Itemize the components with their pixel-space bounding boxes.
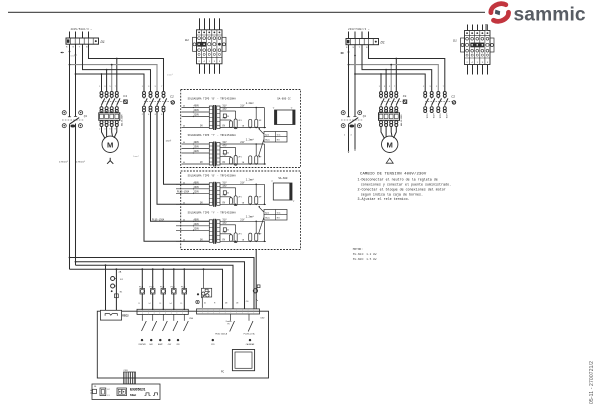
svg-text:CALIBRAR: CALIBRAR [246, 343, 255, 346]
terminal block TB2 mid row circles [465, 43, 468, 46]
svg-text:220V: 220V [194, 150, 200, 153]
svg-text:Blanc: Blanc [265, 218, 270, 220]
svg-text:4: 4 [351, 135, 352, 137]
terminal block TB2 side ears [461, 38, 465, 52]
svg-text:400V/50Hz/3 ~: 400V/50Hz/3 ~ [71, 27, 93, 31]
transformer T4 core [213, 219, 214, 244]
svg-text:AM 49-250S: AM 49-250S [121, 114, 124, 126]
svg-text:sammic: sammic [514, 4, 586, 25]
svg-text:L1: L1 [108, 395, 110, 397]
transformer T2 input 400V [182, 143, 210, 145]
right switch Q blade [349, 118, 359, 125]
junction on r1 [116, 58, 118, 60]
right supply stubs [348, 32, 350, 39]
wire L1 from D1 to switch [69, 44, 71, 117]
svg-text:D1: D1 [381, 41, 385, 45]
right switch aux circle bottom-left [341, 124, 345, 128]
control PCB outline [97, 311, 268, 378]
svg-text:50: 50 [227, 230, 229, 232]
transformer T2 tap 47V [220, 147, 236, 149]
svg-text:Blanc: Blanc [265, 140, 270, 142]
terminal block TB1 side ears [193, 37, 197, 51]
transformer T1 capacitor KF2 [255, 119, 258, 127]
svg-text:40: 40 [183, 126, 185, 128]
svg-text:b1: b1 [204, 303, 206, 305]
svg-text:b/CD1: b/CD1 [445, 114, 447, 119]
terminal block TB1 mid row circles [208, 43, 211, 46]
svg-text:PLUG-150A: PLUG-150A [152, 219, 165, 222]
terminal block TB1 stubs below [199, 64, 201, 74]
welding transformers group box 2 (dashed) [181, 171, 301, 250]
wire C2 col2 to transformer T4 400V [151, 112, 210, 221]
svg-text:8: 8 [115, 128, 116, 130]
contactor C1 coil [124, 100, 127, 103]
right thermal relay [379, 113, 400, 121]
right switch aux circle top-left [341, 111, 345, 115]
svg-text:SA-600 CC: SA-600 CC [277, 97, 291, 100]
branch r2 to contactor C1 [111, 65, 113, 91]
display board left connector [93, 389, 97, 393]
svg-text:11: 11 [138, 303, 140, 305]
svg-text:220V: 220V [194, 191, 200, 194]
svg-text:1: 1 [99, 86, 100, 88]
feeder wire r2 (gray) [70, 65, 158, 91]
wire color legend box 2 [264, 210, 287, 221]
svg-text:3: 3 [148, 86, 149, 88]
terminal block D1 right schematic [346, 39, 379, 45]
terminal block TB2 body [465, 31, 491, 65]
right contactor C2 coil [452, 101, 455, 104]
transformer T4 input 220V [176, 229, 209, 231]
transformer T3 tap 31V [220, 183, 242, 185]
terminal block TB1 jumper bar [197, 42, 206, 47]
svg-text:1-Desconectar el neutro de la: 1-Desconectar el neutro de la regleta de [358, 178, 438, 183]
relay contacts under CN2 [230, 314, 232, 321]
svg-text:400V: 400V [194, 141, 200, 144]
svg-text:1: 1 [379, 86, 380, 88]
contactor C1 lower terminals [100, 107, 103, 110]
transformer T2 capacitor JF1 [234, 156, 237, 166]
svg-text:47V: 47V [222, 108, 227, 111]
svg-text:5: 5 [110, 86, 111, 88]
svg-text:4: 4 [148, 114, 149, 116]
transformer T2 right loop wire [263, 144, 265, 164]
svg-text:40: 40 [183, 183, 185, 185]
main switch Q1 aux circle top-right [79, 111, 83, 115]
svg-text:1: 1 [142, 86, 143, 88]
right switch aux circle top-right [358, 111, 362, 115]
svg-text:3: 3 [430, 86, 431, 88]
transformer T4 fuse CF [229, 235, 232, 242]
svg-text:b/CD1: b/CD1 [439, 114, 441, 119]
svg-text:230/PWR: 230/PWR [138, 344, 146, 346]
svg-text:40: 40 [183, 240, 185, 242]
transformer T1 core [213, 105, 214, 130]
svg-text:Azul: Azul [265, 211, 269, 214]
transformer T2 input 0V [182, 163, 210, 165]
transformer T4 tap 75V [220, 233, 231, 235]
svg-text:SOLDADURA TIPO 'Y' - TRF24520H: SOLDADURA TIPO 'Y' - TRF24520HA [188, 211, 237, 214]
svg-text:47V: 47V [222, 222, 227, 225]
transformer T1 primary winding [209, 106, 212, 129]
fuse wires to connector CN4 [141, 268, 143, 270]
transformer T1 right loop wire [263, 108, 265, 128]
sammic logo mark [489, 2, 510, 23]
transformer T3 capacitor KF2 [255, 196, 258, 204]
relay lower terminals [100, 121, 103, 124]
right branch r4 to C1 [380, 74, 382, 91]
regulator REG2 [100, 310, 121, 320]
transformer T4 wire 21V to caps [242, 220, 265, 222]
transformer T2 fuse CF [229, 157, 232, 164]
transformer T1 input 0V [182, 127, 210, 129]
svg-text:fillet: fillet [130, 393, 136, 397]
svg-text:47V: 47V [222, 185, 227, 188]
PE earth mark [61, 52, 63, 54]
relay sub-box riser wires [203, 269, 205, 288]
svg-text:PLUG-150A: PLUG-150A [177, 191, 190, 194]
LED row [141, 339, 143, 341]
svg-text:C2: C2 [451, 95, 455, 99]
connector strip CN2 [197, 309, 260, 314]
bus wire C [76, 265, 234, 309]
right feeder r3 [362, 45, 432, 91]
transformer T1 input 220V [182, 116, 210, 118]
right contactor C1 contacts [380, 97, 382, 98]
transformer T1 capacitor JF1 [234, 119, 237, 129]
svg-text:E930562/1: E930562/1 [130, 388, 146, 392]
LCD display module 2 [273, 183, 292, 200]
svg-text:b4: b4 [170, 303, 172, 305]
wire color legend box 1 [264, 132, 287, 143]
svg-text:40: 40 [183, 203, 185, 205]
right branch r2 to C1 [390, 65, 392, 91]
svg-text:400V: 400V [194, 105, 200, 108]
svg-text:50: 50 [227, 193, 229, 195]
svg-text:2: 2 [99, 128, 100, 130]
terminal block TB1 screw circles [198, 32, 200, 34]
transformer T2 capacitor KF2 [255, 156, 258, 164]
svg-text:MOTOR:: MOTOR: [353, 248, 363, 251]
svg-text:C1: C1 [123, 94, 127, 98]
transformer T1 tap 31V [220, 107, 242, 109]
svg-text:75V: 75V [222, 117, 227, 120]
right contactor C1 linkage [382, 101, 404, 103]
motor M1 [102, 136, 118, 152]
main switch Q1 blade [70, 118, 80, 125]
right contactor C1 top terminals [380, 92, 383, 95]
right contactor C2 lower terminals [424, 107, 427, 110]
svg-text:15: 15 [180, 303, 182, 305]
svg-text:SOLDADURA TIPO 'B' - TRF24520H: SOLDADURA TIPO 'B' - TRF24520HA [188, 174, 237, 177]
contactor C2 linkage dashed [144, 101, 171, 103]
transformer T2 input 230V [182, 148, 210, 150]
transformer T4 tap 31V [220, 220, 242, 222]
terminal block TB2 stubs below [467, 65, 469, 75]
transformer T3 secondary winding [217, 183, 220, 206]
svg-text:2.2mm²: 2.2mm² [246, 102, 254, 105]
svg-text:7: 7 [394, 86, 395, 88]
bus wire D [70, 269, 223, 309]
svg-text:40: 40 [183, 142, 185, 144]
contactor C2 lower terminals [143, 106, 146, 109]
display board icons [145, 393, 151, 396]
legend arrow to T1 [259, 129, 264, 135]
right contactor C2 top terminals [424, 92, 427, 95]
supply stub wires [69, 32, 71, 39]
transformer T3 tap 47V [220, 187, 236, 189]
transformer T1 0V rail [220, 127, 266, 129]
svg-text:3: 3 [104, 86, 105, 88]
svg-text:6mm²: 6mm² [71, 55, 77, 58]
svg-text:C1: C1 [403, 94, 407, 98]
transformer T4 capacitor KF1 [249, 233, 252, 241]
main switch Q1 aux circle bottom-right [78, 124, 82, 128]
svg-text:400V: 400V [194, 182, 200, 185]
transformer T2 tap 31V [220, 143, 242, 145]
TB2 gray jumper wire [485, 24, 487, 31]
relay sub-box on wires [202, 288, 212, 297]
wire C2 col4 to transformer T3 400V [164, 112, 210, 184]
svg-text:2-Conectar el bloque de conexi: 2-Conectar el bloque de conexiones del m… [358, 187, 446, 192]
svg-text:b2: b2 [149, 303, 151, 305]
branch r3 to contactor C1 [106, 70, 108, 91]
branch r1 to contactor C1 [116, 59, 118, 92]
contactor C1 top terminals [100, 92, 103, 95]
display board component S1 [100, 388, 106, 396]
svg-text:PC: PC [221, 371, 225, 373]
transformer T4 input 0V [176, 240, 209, 242]
feeder wire r4 [76, 74, 145, 91]
svg-text:CAMBIO DE TENSION 400V/230V: CAMBIO DE TENSION 400V/230V [360, 171, 427, 176]
right PE mark [341, 52, 343, 54]
legend arrow to T2 [259, 140, 264, 157]
bus wire B [76, 262, 245, 309]
wire C2 col1 to transformer T4 0V [144, 112, 209, 241]
relay contacts under CN4 [141, 314, 143, 320]
transformer T2 resistor [223, 151, 226, 155]
svg-text:D1: D1 [101, 40, 105, 44]
transformer T2 secondary winding [217, 143, 220, 166]
transformer T2 0V rail [220, 163, 266, 165]
right switch wire ends [348, 124, 350, 151]
svg-text:Gris: Gris [277, 133, 281, 136]
svg-text:C2: C2 [170, 95, 174, 99]
connector strip CN4 [137, 309, 188, 314]
svg-text:Azul: Azul [265, 133, 269, 136]
svg-text:8: 8 [161, 114, 162, 116]
terminal block TB2 screw circles [466, 32, 468, 34]
svg-text:6: 6 [155, 114, 156, 116]
wire from welding box T4 to buzzer and connector [255, 250, 257, 309]
svg-text:05-11 - 2700721/2: 05-11 - 2700721/2 [589, 361, 595, 404]
svg-text:1mm²: 1mm² [166, 140, 172, 143]
svg-text:6: 6 [110, 128, 111, 130]
svg-text:SOLDADURA TIPO 'B' - TRF24520H: SOLDADURA TIPO 'B' - TRF24520HA [188, 98, 237, 101]
svg-text:230V: 230V [194, 186, 200, 189]
transformer T2 primary winding [209, 143, 212, 166]
right feeder r4 [355, 74, 425, 91]
svg-text:7: 7 [161, 86, 162, 88]
svg-text:REG2: REG2 [122, 315, 129, 317]
svg-text:40: 40 [183, 162, 185, 164]
thermal overload relay F1 [99, 113, 120, 121]
transformer T3 primary winding [209, 183, 212, 206]
terminal block D1 (left schematic) [66, 38, 99, 44]
right branch r1 to C1 [395, 59, 397, 92]
right contactor C1 lower terminals [380, 107, 383, 110]
transformer T2 capacitor KF1 [249, 156, 252, 164]
indicator E1 chain [116, 268, 118, 270]
transformer T3 input 220V [176, 192, 209, 194]
transformer T4 0V rail [220, 240, 266, 242]
svg-text:segun indica la caja de bornes: segun indica la caja de bornes. [361, 192, 423, 197]
svg-text:PU32 1025 A: PU32 1025 A [215, 332, 227, 335]
right wire L2 to switch [354, 45, 356, 117]
legend 2 arrow to T4 [259, 218, 264, 234]
terminal block TB2 stubs above [467, 25, 469, 31]
contactor C1 linkage dashed [102, 101, 124, 103]
contactor C2 coil [171, 101, 174, 104]
motor leads [102, 127, 106, 139]
transformer T3 core [213, 182, 214, 207]
transformer T3 resistor [223, 191, 226, 195]
svg-text:D1: D1 [453, 39, 457, 43]
svg-text:230V: 230V [194, 109, 200, 112]
main switch Q1 aux circle top-left [62, 111, 66, 115]
svg-text:220V: 220V [194, 228, 200, 231]
svg-text:50: 50 [227, 116, 229, 118]
svg-text:5: 5 [389, 86, 390, 88]
transformer T1 tap 75V [220, 119, 231, 121]
wire below switch pole2 [75, 124, 77, 266]
svg-text:230V/50Hz/3 ~: 230V/50Hz/3 ~ [348, 27, 370, 31]
right relay lower terminals [380, 121, 383, 124]
svg-text:SV-606: 1.5 kW: SV-606: 1.5 kW [353, 257, 377, 261]
transformer T3 capacitor JF1 [234, 196, 237, 206]
svg-text:SA-600: SA-600 [278, 177, 288, 180]
transformer T2 core [213, 142, 214, 167]
display board box [92, 384, 160, 400]
svg-text:47V: 47V [222, 145, 227, 148]
right switch Q contact ticks [347, 116, 350, 118]
delta connection symbol [386, 158, 393, 163]
svg-text:3-Ajustar el rele termico.: 3-Ajustar el rele termico. [358, 197, 410, 202]
transformer T1 input 400V [182, 107, 210, 109]
svg-text:F0: F0 [228, 324, 230, 326]
right feeder r1 [369, 45, 445, 91]
transformer T4 right loop wire [263, 221, 265, 241]
transformer T3 capacitor KF1 [249, 196, 252, 204]
svg-text:b/CD1: b/CD1 [432, 114, 434, 119]
transformer T1 wire 21V to caps [242, 107, 265, 109]
top border line [8, 11, 485, 13]
right motor M1 [382, 136, 398, 152]
svg-text:230V: 230V [194, 146, 200, 149]
transformer T1 capacitor KF1 [249, 119, 252, 127]
svg-text:400V: 400V [194, 219, 200, 222]
feeder wire r1 top [89, 44, 164, 91]
svg-text:1: 1 [423, 86, 424, 88]
svg-text:75V: 75V [222, 231, 227, 234]
transformer T4 input 400V [176, 220, 209, 222]
right switch linkage [341, 119, 363, 121]
terminal block TB2 jumper bar [470, 43, 484, 48]
transformer T4 tap 47V [220, 224, 236, 226]
svg-text:AM 49-250S: AM 49-250S [400, 114, 403, 126]
transformer T4 resistor [223, 228, 226, 232]
right motor leads [381, 127, 385, 139]
wire to regulator REG2 [105, 265, 107, 313]
svg-text:0.75mm²: 0.75mm² [76, 161, 85, 164]
star connection symbol [109, 158, 111, 161]
transformer T2 tap 75V [220, 156, 231, 158]
transformer T3 input 230V [176, 188, 209, 190]
transformer T3 wire 21V to caps [242, 183, 265, 185]
wire L2 from D1 to switch [75, 44, 77, 116]
right contactor C2 contacts [424, 97, 426, 98]
transformer T3 input 400V [176, 183, 209, 185]
transformer T1 resistor [223, 114, 226, 118]
svg-text:2: 2 [142, 114, 143, 116]
transformer T1 input 230V [182, 111, 210, 113]
LCD display module 1 [275, 110, 296, 125]
contactor C2 contacts [143, 97, 145, 98]
transformer T4 capacitor KF2 [255, 233, 258, 241]
bus wire A [70, 258, 255, 309]
legend 2 arrow to T3 [259, 207, 264, 213]
svg-text:7: 7 [443, 86, 444, 88]
svg-text:3: 3 [384, 86, 385, 88]
svg-text:b/CD1: b/CD1 [425, 114, 427, 119]
svg-text:7: 7 [115, 86, 116, 88]
svg-text:M: M [107, 140, 113, 149]
right branch r3 to C1 [385, 70, 387, 91]
terminal block TB1 body [197, 30, 223, 64]
welding transformers group box 1 (dashed) [181, 90, 301, 168]
transformer T1 secondary winding [217, 106, 220, 129]
wire below switch pole1 [69, 124, 71, 269]
svg-text:4: 4 [104, 128, 105, 130]
svg-text:PLUG-CO A: PLUG-CO A [244, 332, 256, 335]
feeder wire r3 [83, 44, 151, 91]
transformer T3 fuse CF [229, 198, 232, 205]
transformer T3 input 0V [176, 203, 209, 205]
transformer T4 primary winding [209, 220, 212, 243]
transformer T2 input 220V [182, 152, 210, 154]
transformer T4 secondary winding [217, 220, 220, 243]
svg-text:5: 5 [155, 86, 156, 88]
svg-text:SV-604: 1.2 kW: SV-604: 1.2 kW [353, 252, 377, 256]
right contactor C2 linkage [425, 101, 452, 103]
svg-text:M: M [387, 140, 393, 149]
svg-text:50: 50 [227, 152, 229, 154]
svg-text:230V: 230V [194, 223, 200, 226]
transformer T3 tap 75V [220, 196, 231, 198]
svg-text:NL: NL [94, 386, 96, 388]
svg-text:13: 13 [159, 303, 161, 305]
transformer T1 fuse CF [229, 121, 232, 128]
transformer box on PCB [232, 350, 254, 371]
svg-text:2.2mm²: 2.2mm² [246, 138, 254, 141]
svg-text:2.2mm²: 2.2mm² [246, 179, 254, 182]
transformer T3 right loop wire [263, 184, 265, 204]
svg-text:L2: L2 [108, 389, 110, 391]
right switch aux circle bottom-right [357, 124, 361, 128]
contactor C1 contacts [101, 97, 103, 98]
terminal block TB1 stubs above [199, 18, 201, 30]
transformer T3 0V rail [220, 203, 266, 205]
